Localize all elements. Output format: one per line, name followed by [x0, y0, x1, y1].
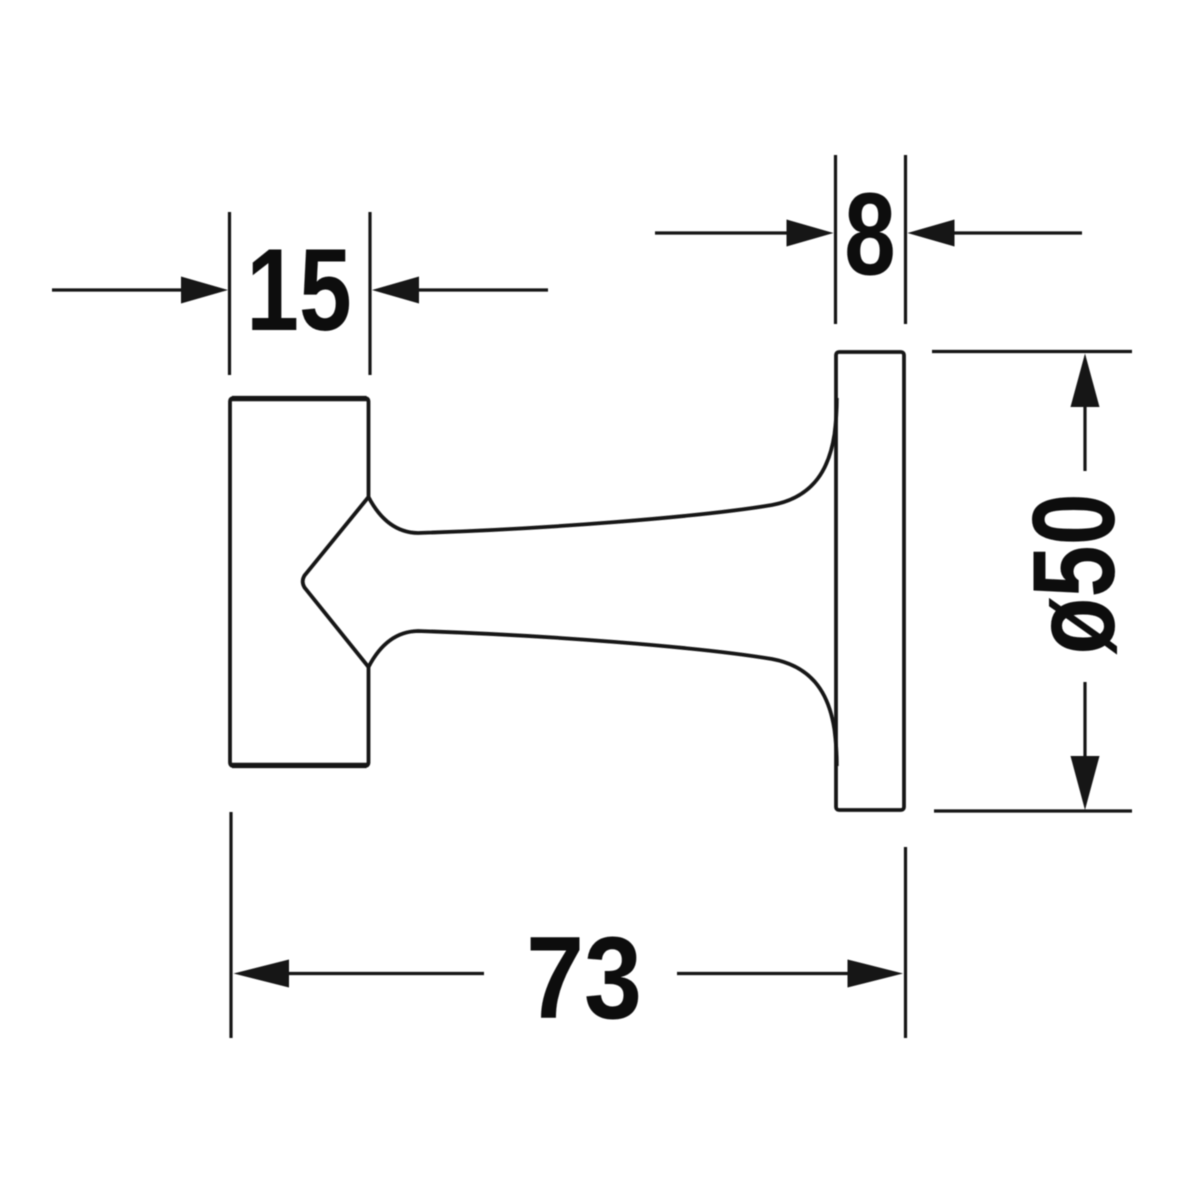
dim 15: left arrowhead — [181, 277, 228, 304]
stem bottom edge with trumpet flare — [369, 631, 837, 766]
dim 8: right arrowhead — [908, 220, 955, 247]
dim 73: left arrow line — [284, 972, 484, 975]
cone chevron behind knob — [303, 497, 369, 667]
dim 8: left arrowhead — [787, 220, 834, 247]
svg-text:73: 73 — [526, 914, 642, 1044]
knob top edge (heavier line) — [232, 396, 367, 401]
dim 73: left arrowhead — [234, 960, 290, 988]
dim 15: left arrow line — [52, 288, 186, 291]
dim 73: right arrow line — [677, 972, 852, 975]
dim 15: right extension line — [368, 212, 371, 375]
dim ø50: upper stem — [1083, 397, 1086, 471]
dim ø50: bottom reference line — [934, 809, 1132, 812]
dim 8: right extension line — [904, 155, 907, 324]
dim 15: left extension line — [228, 212, 231, 375]
dim 15: right arrowhead — [372, 277, 419, 304]
wall plate rectangle (8 mm thick, ø50) — [836, 352, 904, 810]
dim 8: right arrow line — [949, 231, 1082, 234]
dim ø50: upper arrowhead — [1071, 354, 1100, 408]
stem top edge with trumpet flare — [369, 398, 837, 533]
dim 73: right extension line — [904, 847, 907, 1038]
svg-text:8: 8 — [844, 170, 895, 300]
dim 73: right arrowhead — [848, 960, 904, 988]
dim ø50: lower arrowhead — [1071, 756, 1100, 810]
dim ø50: lower stem — [1083, 682, 1086, 764]
dim 15: right arrow line — [414, 288, 548, 291]
knob face rectangle (15 mm wide) — [230, 398, 369, 766]
dim ø50: top reference line — [932, 350, 1132, 353]
knob bottom edge (heavier line) — [232, 763, 367, 768]
dim 8: left extension line — [834, 155, 837, 324]
svg-text:ø50: ø50 — [1009, 493, 1139, 654]
svg-text:15: 15 — [246, 225, 351, 356]
dim 8: left arrow line — [655, 231, 792, 234]
dim 73: left extension line — [229, 812, 232, 1038]
